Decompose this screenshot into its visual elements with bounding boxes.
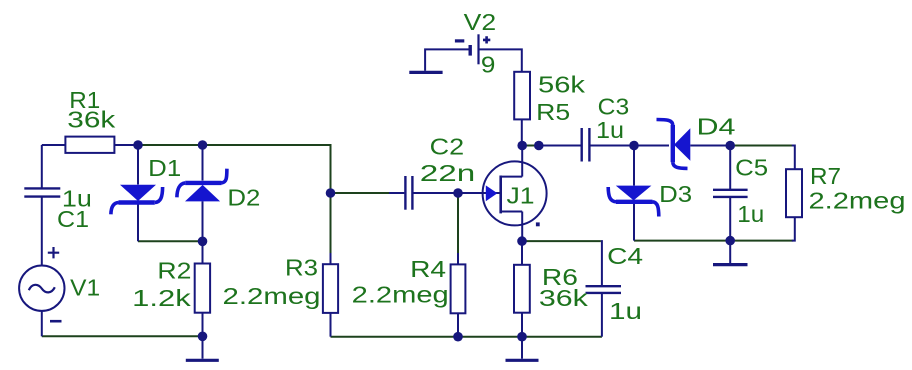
wire C3 left lead — [539, 145, 581, 147]
resistor R5 — [514, 72, 530, 120]
wire D3 bottom lead — [633, 204, 635, 241]
wire C2 right lead to node B — [413, 192, 458, 194]
svg-text:J1: J1 — [507, 183, 535, 209]
svg-text:22n: 22n — [420, 160, 476, 186]
resistor R1 — [65, 137, 114, 153]
svg-text:R7: R7 — [810, 163, 841, 189]
JFET J1 — [483, 161, 547, 226]
svg-text:36k: 36k — [539, 285, 589, 311]
svg-text:C5: C5 — [735, 155, 768, 181]
svg-text:1.2k: 1.2k — [132, 285, 191, 311]
voltage source V1 — [19, 247, 64, 321]
wire node B down to R3 lead — [330, 193, 332, 253]
WIRES-NAVY — [42, 49, 795, 358]
wire C3 right lead — [590, 145, 634, 147]
wire JFET source vertical to node — [521, 212, 523, 242]
node dot drain — [517, 141, 527, 151]
svg-text:9: 9 — [481, 52, 496, 78]
resistor R6 — [514, 265, 530, 313]
node dot A — [326, 188, 336, 198]
wire R2 bottom lead — [202, 313, 204, 337]
wire D2 bottom lead — [202, 201, 204, 241]
node dot C3 right D3 — [629, 141, 639, 151]
node dot source — [517, 236, 527, 246]
wire D3 top lead — [633, 146, 635, 186]
node dot R2 ground — [198, 332, 208, 342]
wire D4 right lead — [690, 145, 730, 147]
wire D1 top lead — [137, 145, 139, 185]
svg-text:1u: 1u — [609, 298, 642, 324]
wire source node to C4 corner — [522, 240, 601, 242]
zener diode D3 — [608, 186, 659, 217]
wire R6 bottom lead — [521, 313, 523, 337]
WIRES-GREEN — [42, 145, 793, 337]
wire R1 right lead — [114, 144, 138, 146]
wire R2 top lead — [202, 241, 204, 263]
node dot output top — [725, 141, 735, 151]
svg-text:R4: R4 — [410, 256, 446, 282]
wire top rail D1 to D2 — [138, 144, 203, 146]
wire C4 bottom lead — [601, 293, 603, 337]
capacitor C1 — [24, 188, 60, 196]
node dot B gate — [453, 188, 463, 198]
wire D2 top lead — [202, 145, 204, 181]
svg-text:C4: C4 — [607, 243, 643, 269]
wire R2 ground stub — [202, 336, 204, 358]
zener diode D4 — [657, 120, 691, 169]
capacitor C4 — [586, 286, 622, 293]
GROUND SYMBOLS — [186, 72, 748, 360]
svg-text:R5: R5 — [536, 99, 570, 125]
wire V1 top to C1 — [41, 145, 43, 188]
wire R4 top lead — [457, 253, 459, 264]
ground under R2 — [186, 359, 219, 362]
wire R7 bottom to output bottom node — [730, 240, 793, 242]
svg-text:1u: 1u — [596, 117, 624, 143]
wire source node to R6 top — [521, 241, 523, 265]
wire C4 top lead — [601, 241, 602, 286]
svg-text:V1: V1 — [70, 274, 100, 300]
svg-text:2.2meg: 2.2meg — [223, 283, 321, 309]
wire gate lead node B to JFET — [458, 192, 500, 194]
capacitor C2 — [405, 176, 412, 210]
wire R3 bottom lead — [330, 313, 332, 337]
wire R5 bottom lead — [521, 119, 523, 145]
wire node A to C2 — [331, 192, 390, 194]
svg-text:R2: R2 — [157, 257, 191, 283]
wire R3 top lead — [330, 253, 332, 264]
wire D1 bottom lead — [137, 205, 139, 242]
resistor R4 — [451, 264, 466, 313]
wire bottom rail left V1 to R2 ground — [42, 335, 203, 337]
svg-text:D3: D3 — [659, 181, 692, 207]
node dot R4 bottom — [453, 332, 463, 342]
zener diode D1 — [111, 185, 163, 215]
svg-text:C1: C1 — [57, 206, 89, 232]
svg-text:D4: D4 — [697, 114, 736, 140]
svg-text:1u: 1u — [737, 201, 764, 227]
wire D1 bottom to R2 top — [138, 240, 203, 242]
wire R7 bottom lead — [792, 217, 795, 240]
svg-text:56k: 56k — [538, 72, 586, 98]
wire bottom rail right R3 to C4 — [331, 336, 602, 338]
wire drain dot to C3 dot — [522, 145, 539, 147]
node dot R1-D1 — [133, 140, 143, 150]
RESISTOR BODIES — [65, 72, 802, 313]
wire V2 plus to R5 corner — [480, 49, 522, 71]
wire C5 top lead — [729, 146, 731, 190]
node dot D2 top — [198, 140, 208, 150]
wire V1 bottom lead — [41, 311, 43, 337]
wire C5 bottom lead — [729, 197, 731, 241]
svg-text:2.2meg: 2.2meg — [352, 281, 449, 307]
ground under R6 — [506, 359, 539, 362]
svg-text:2.2meg: 2.2meg — [809, 187, 906, 213]
svg-text:C3: C3 — [598, 94, 630, 120]
node dot R6 ground — [517, 332, 527, 342]
svg-text:C2: C2 — [430, 134, 465, 160]
resistor R3 — [323, 264, 338, 313]
wire output node to R7 top corner navy part — [792, 146, 795, 170]
wire top rail D2 to node A corner — [203, 145, 331, 193]
node dot C3 left — [534, 141, 544, 151]
wire C1 to V1 circle — [41, 197, 43, 266]
wire D3 bottom to output bottom node — [634, 240, 730, 242]
node dot D1-R2 — [198, 237, 208, 247]
zener diode D2 — [177, 169, 227, 202]
svg-text:36k: 36k — [67, 106, 116, 132]
node dot output bottom — [725, 236, 735, 246]
battery V2 — [455, 34, 490, 64]
wire node B down to R4 lead — [457, 193, 459, 253]
wire R4 bottom lead — [457, 313, 459, 336]
svg-text:V2: V2 — [464, 9, 497, 35]
wire JFET drain vertical — [521, 146, 523, 177]
capacitor C3 — [582, 128, 590, 162]
wire C2 left lead — [389, 192, 404, 194]
resistor R2 — [195, 264, 210, 313]
wire V2 minus to ground corner — [425, 49, 469, 70]
wire output top node to R7 corner — [730, 145, 793, 147]
svg-text:D2: D2 — [227, 185, 260, 211]
wire R1 left lead — [42, 144, 66, 146]
ground under V2 — [409, 71, 442, 74]
svg-text:R3: R3 — [285, 255, 318, 281]
capacitor C5 — [713, 190, 748, 197]
wire R6 ground stub — [521, 337, 523, 359]
svg-text:D1: D1 — [148, 155, 181, 181]
resistor R7 — [786, 169, 802, 217]
wire D4 left lead — [634, 145, 669, 147]
wire output ground stub — [729, 241, 731, 263]
ground at output node — [713, 263, 748, 266]
